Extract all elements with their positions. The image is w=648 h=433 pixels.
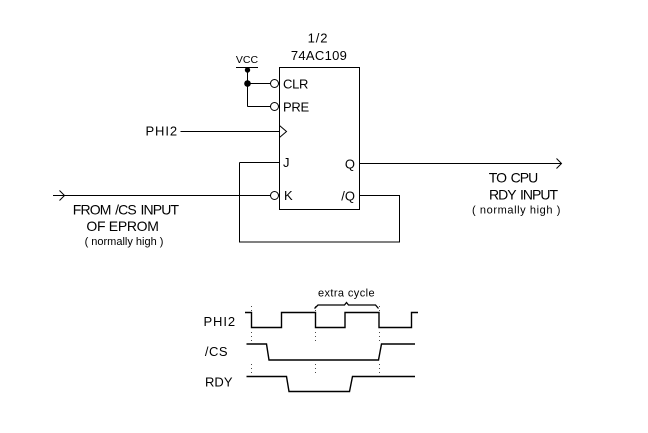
svg-text:( normally high ): ( normally high ) (472, 205, 561, 217)
flip-flop U1 74AC109 body (280, 68, 360, 210)
svg-text:/CS: /CS (205, 344, 228, 359)
svg-text:J: J (283, 155, 290, 170)
svg-text:PRE: PRE (283, 100, 309, 115)
arrow Q output (557, 159, 562, 169)
svg-text:CLR: CLR (283, 77, 308, 92)
svg-text:K: K (284, 188, 293, 203)
svg-text:PHI2: PHI2 (145, 124, 178, 139)
timing marker dotted line 2 (315, 306, 317, 374)
arrow into K wire (60, 191, 65, 201)
svg-text:TO CPU: TO CPU (489, 170, 538, 186)
pin K bubble (271, 192, 279, 200)
svg-text:( normally high ): ( normally high ) (85, 236, 164, 248)
pin CLR bubble (271, 80, 279, 88)
timing marker dotted line 1 (251, 306, 253, 374)
wire to CLR pin (248, 83, 271, 85)
wire PHI2 to clock pin (181, 131, 280, 133)
wire K input from EPROM (53, 195, 271, 197)
junction dot at CLR branch (244, 80, 251, 87)
svg-text:/Q: /Q (341, 189, 355, 204)
svg-text:VCC: VCC (236, 54, 259, 66)
svg-text:RDY: RDY (205, 375, 233, 390)
wire Q output (360, 163, 562, 165)
svg-text:PHI2: PHI2 (203, 314, 236, 329)
wire /Q feedback to J (240, 163, 400, 243)
waveform /CS (247, 344, 416, 360)
wire J input (240, 162, 280, 164)
brace over extra cycle (315, 303, 379, 309)
power VCC symbol (236, 54, 259, 73)
waveform RDY (247, 377, 416, 392)
pin PRE bubble (271, 103, 279, 111)
pin clock edge-triangle (280, 126, 287, 138)
svg-text:Q: Q (345, 157, 355, 172)
wire VCC to PRE vertical (247, 68, 249, 107)
svg-text:extra cycle: extra cycle (318, 288, 375, 300)
wire to PRE pin (248, 106, 271, 108)
node label TO CPU RDY INPUT (472, 170, 561, 217)
waveform PHI2 (245, 313, 418, 328)
svg-text:OF EPROM: OF EPROM (86, 218, 158, 234)
svg-text:RDY INPUT: RDY INPUT (489, 187, 558, 203)
timing marker dotted line 3 (379, 306, 381, 374)
svg-text:1/2: 1/2 (308, 31, 329, 46)
svg-text:FROM /CS INPUT: FROM /CS INPUT (73, 202, 180, 218)
svg-text:74AC109: 74AC109 (291, 48, 347, 63)
node label FROM /CS INPUT OF EPROM (73, 202, 180, 249)
